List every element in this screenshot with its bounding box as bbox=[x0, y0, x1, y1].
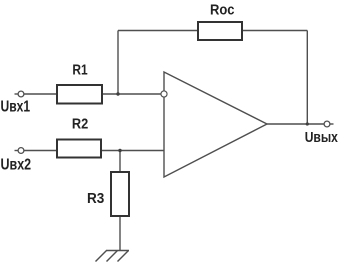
resistor R2 bbox=[57, 140, 101, 158]
input terminal Uвх1 bbox=[18, 91, 24, 97]
wire: feedback right vertical down to output bbox=[306, 31, 308, 125]
svg-text:Uвх1: Uвх1 bbox=[1, 99, 31, 116]
svg-text:R2: R2 bbox=[72, 115, 88, 132]
svg-text:R1: R1 bbox=[72, 62, 87, 79]
svg-text:Roc: Roc bbox=[210, 2, 235, 19]
resistor Roc bbox=[198, 22, 242, 40]
wire: feedback top right horizontal from Roc to right corner bbox=[242, 30, 307, 32]
wire: stub right of output terminal bbox=[330, 123, 334, 125]
op-amp inverting input bubble bbox=[161, 91, 167, 97]
wire: R1 to inverting input bbox=[102, 93, 164, 95]
wire: feedback left vertical down to inverting node bbox=[117, 31, 119, 95]
wire: R2 to non-inverting input bbox=[101, 150, 164, 152]
junction: R2 / R3 node bbox=[118, 149, 121, 152]
ground bbox=[96, 251, 130, 262]
resistor R1 bbox=[57, 85, 102, 104]
wire: node to R3 top bbox=[119, 151, 121, 173]
resistor R3 bbox=[111, 172, 129, 216]
wire: input 2 terminal to R2 bbox=[24, 150, 57, 152]
wire: R3 bottom to ground bbox=[119, 216, 121, 251]
svg-text:R3: R3 bbox=[87, 190, 104, 207]
wire: stub inside op-amp at inverting input bbox=[167, 93, 170, 95]
wire: input 1 stub left of terminal bbox=[15, 93, 19, 95]
output terminal Uвых bbox=[324, 121, 330, 127]
junction: feedback / inverting input node bbox=[116, 92, 119, 95]
op-amp U1 triangle bbox=[164, 72, 267, 177]
wire: input 1 terminal to R1 bbox=[24, 93, 57, 95]
svg-text:Uвых: Uвых bbox=[305, 129, 339, 146]
wire: input 2 stub left of terminal bbox=[15, 150, 19, 152]
svg-text:Uвх2: Uвх2 bbox=[1, 157, 32, 174]
input terminal Uвх2 bbox=[18, 148, 24, 154]
wire: op-amp output to terminal bbox=[267, 123, 324, 125]
junction: feedback / output node bbox=[306, 122, 309, 125]
wire: feedback top left horizontal from inverting node to Roc bbox=[118, 30, 198, 32]
